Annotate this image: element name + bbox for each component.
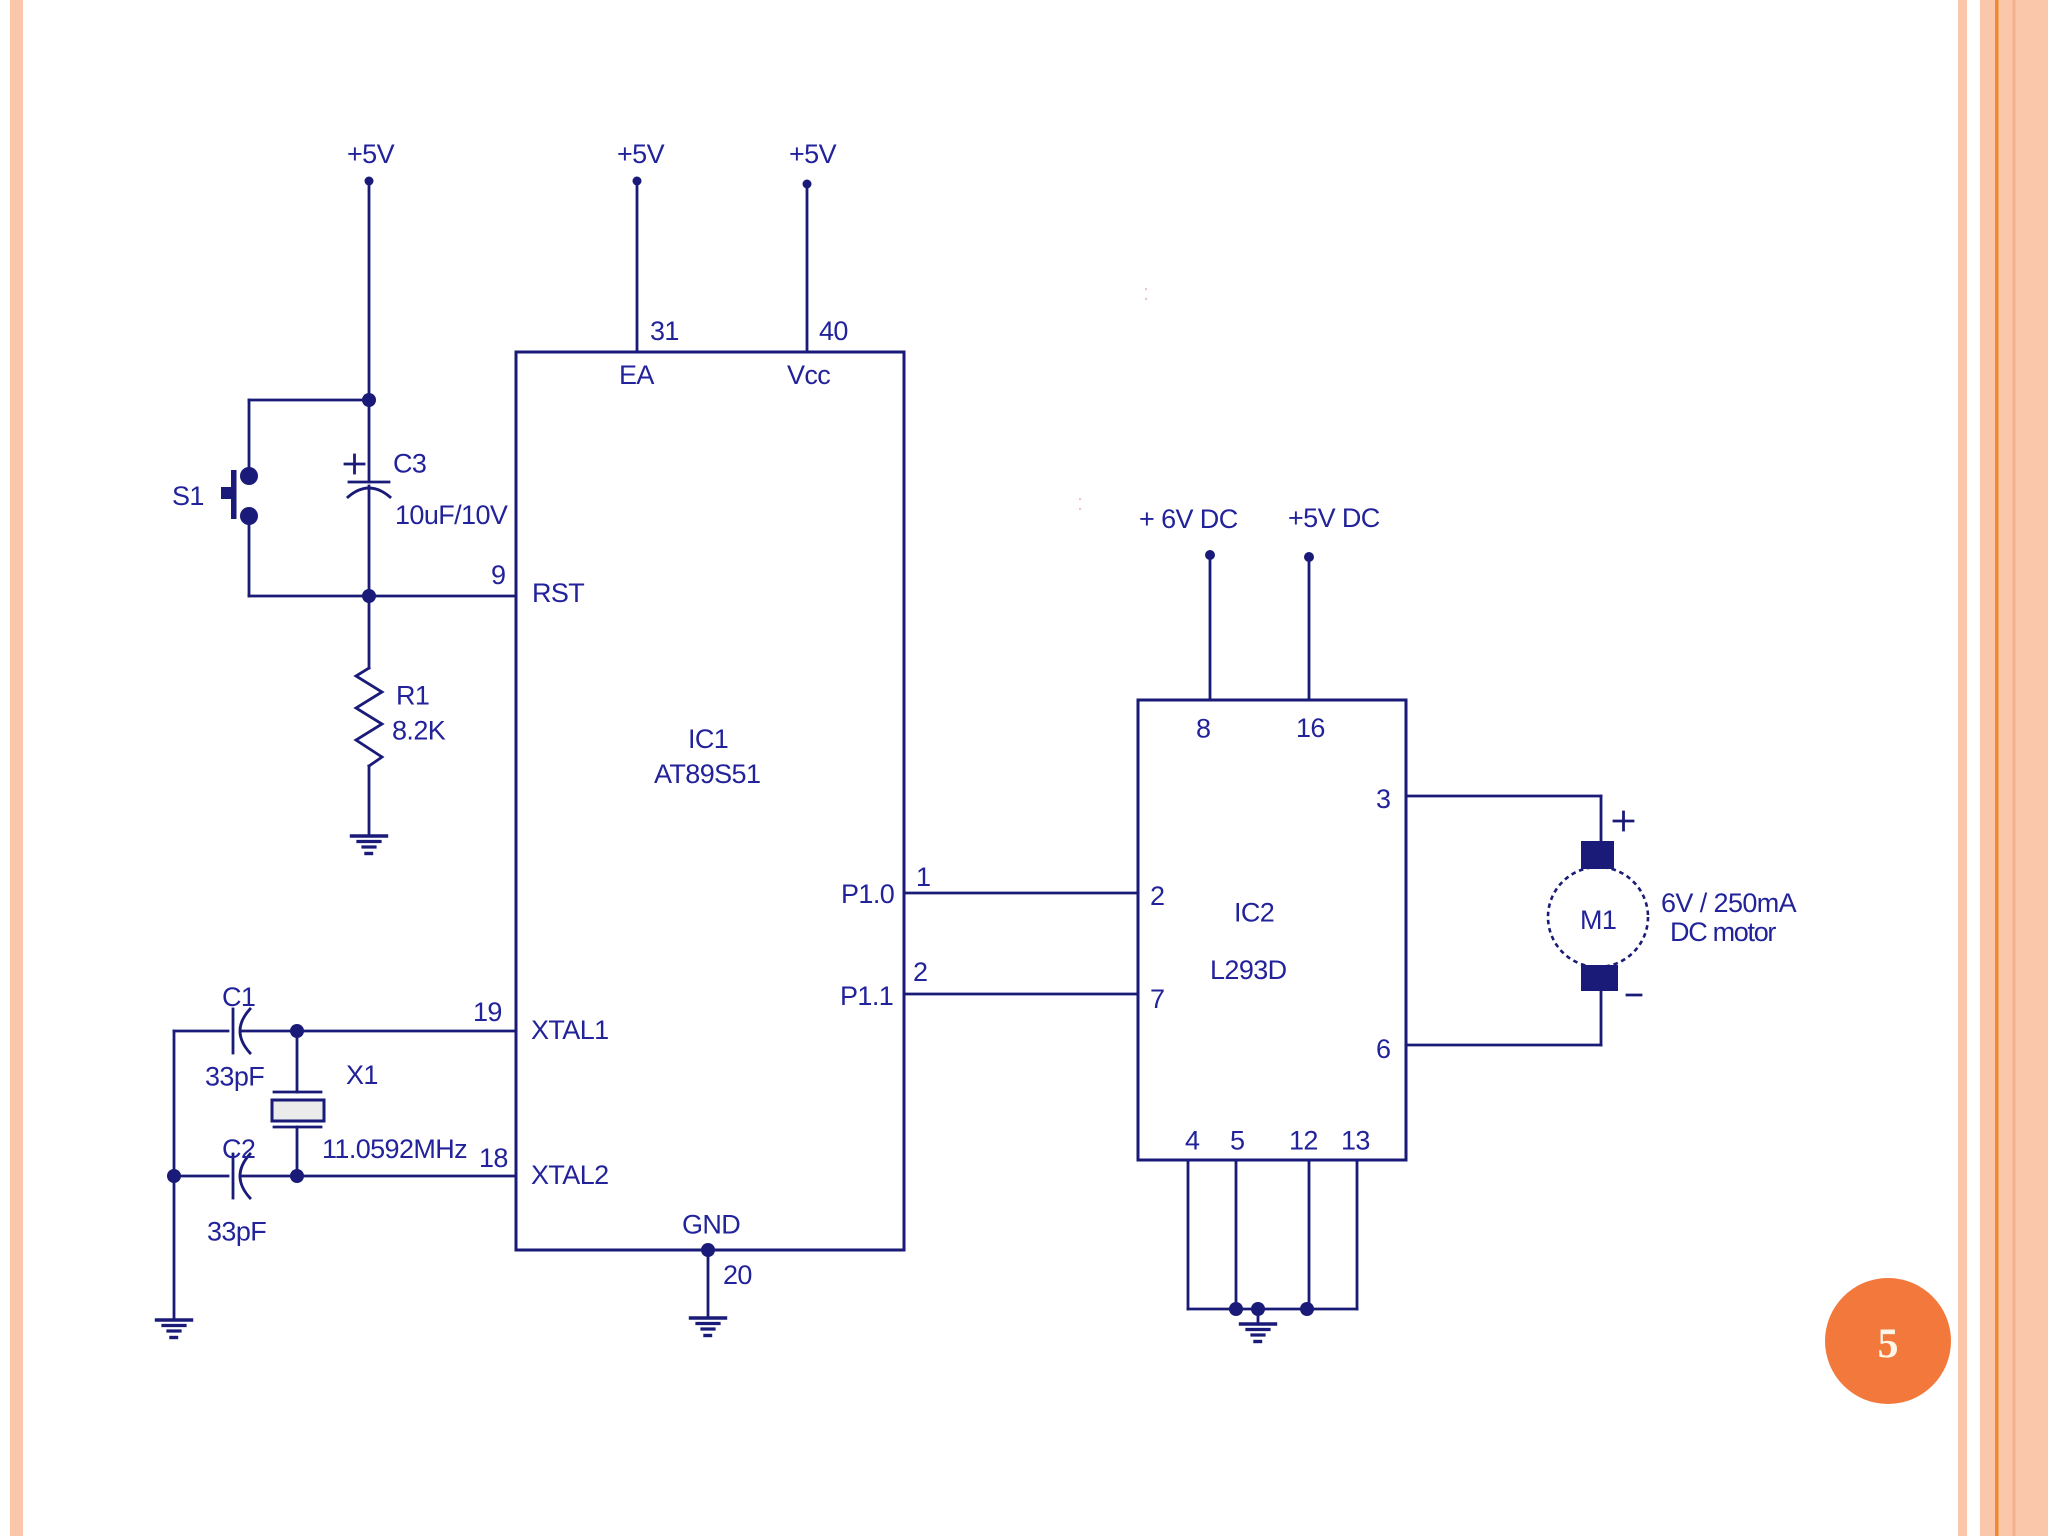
svg-text:33pF: 33pF	[207, 1217, 266, 1247]
svg-text:+5V: +5V	[347, 139, 395, 169]
svg-text:XTAL2: XTAL2	[531, 1160, 609, 1190]
svg-text:C3: C3	[393, 449, 426, 479]
svg-text:EA: EA	[619, 360, 654, 390]
svg-text:19: 19	[473, 997, 502, 1027]
svg-text:R1: R1	[396, 681, 429, 711]
svg-text:11.0592MHz: 11.0592MHz	[322, 1134, 467, 1164]
svg-text:AT89S51: AT89S51	[654, 759, 760, 789]
svg-text:+ 6V DC: + 6V DC	[1139, 504, 1238, 534]
svg-text:3: 3	[1376, 784, 1390, 814]
svg-text:20: 20	[723, 1260, 752, 1290]
svg-text:+5V: +5V	[789, 139, 837, 169]
svg-text:M1: M1	[1580, 905, 1616, 935]
svg-text:RST: RST	[532, 578, 584, 608]
svg-text:X1: X1	[346, 1060, 378, 1090]
svg-text:4: 4	[1185, 1126, 1200, 1156]
svg-text:33pF: 33pF	[205, 1062, 264, 1092]
svg-text:8.2K: 8.2K	[392, 716, 446, 746]
svg-text:6: 6	[1376, 1034, 1390, 1064]
svg-text:1: 1	[916, 862, 930, 892]
svg-text:XTAL1: XTAL1	[531, 1015, 609, 1045]
svg-text:S1: S1	[172, 481, 204, 511]
svg-text:+5V: +5V	[617, 139, 665, 169]
svg-text:IC1: IC1	[688, 724, 728, 754]
svg-text:C1: C1	[222, 982, 255, 1012]
svg-text:12: 12	[1289, 1126, 1318, 1156]
svg-text:IC2: IC2	[1234, 898, 1274, 928]
svg-text:10uF/10V: 10uF/10V	[395, 500, 508, 530]
svg-text:5: 5	[1230, 1126, 1244, 1156]
svg-text:DC motor: DC motor	[1670, 917, 1776, 947]
svg-text:16: 16	[1296, 713, 1325, 743]
svg-text:C2: C2	[222, 1134, 255, 1164]
svg-text:18: 18	[479, 1143, 508, 1173]
svg-text:8: 8	[1196, 714, 1210, 744]
svg-text:5: 5	[1878, 1322, 1899, 1368]
svg-text:31: 31	[650, 316, 679, 346]
svg-text:+5V DC: +5V DC	[1288, 503, 1380, 533]
svg-text::: :	[1143, 280, 1149, 305]
svg-text:9: 9	[491, 560, 505, 590]
svg-text:6V / 250mA: 6V / 250mA	[1661, 888, 1797, 918]
svg-text:P1.1: P1.1	[840, 981, 893, 1011]
svg-text:P1.0: P1.0	[841, 879, 894, 909]
svg-text:2: 2	[1150, 881, 1164, 911]
svg-text:2: 2	[913, 957, 927, 987]
svg-text:13: 13	[1341, 1126, 1370, 1156]
svg-text:40: 40	[819, 316, 848, 346]
svg-text:L293D: L293D	[1210, 955, 1287, 985]
svg-text:GND: GND	[682, 1210, 740, 1240]
svg-text::: :	[1077, 490, 1083, 515]
svg-text:Vcc: Vcc	[787, 360, 830, 390]
svg-text:7: 7	[1150, 984, 1164, 1014]
